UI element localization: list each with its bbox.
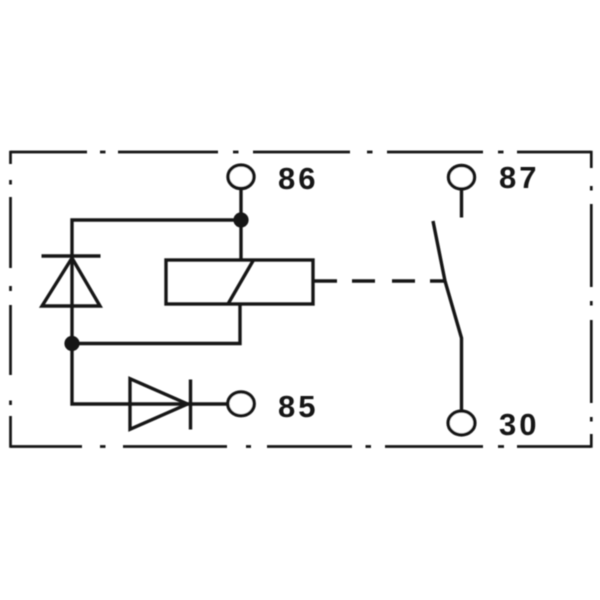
diode D1 (vertical, anode bottom, cathode bar top) [42,256,101,306]
switch armature S1 [433,221,462,410]
wire: coil to armature (dashed mechanical link) [313,279,445,282]
svg-text:86: 86 [278,161,318,196]
relay case outline, right side [590,151,593,448]
svg-text:87: 87 [499,160,539,195]
terminal circle 87 [449,166,475,189]
terminal circle 85 [228,392,254,416]
wire: 87 stub [460,189,463,218]
svg-text:85: 85 [278,389,318,424]
wire: junction to left branch down to lower junction [72,220,241,344]
wire: 86 to coil top [239,189,242,261]
terminal circle 30 [448,411,475,435]
node: junction dot on 86 wire [233,212,248,227]
relay case outline (dash-dot border), top side [11,151,592,154]
diode D2 (horizontal, pointing right) [130,379,191,430]
relay coil K1 [166,260,313,304]
relay case outline, left side [9,151,12,448]
relay case outline, bottom side [11,445,592,448]
wire: lower junction to coil bottom [72,304,240,344]
node: lower-left junction dot [64,336,79,351]
terminal circle 86 [228,165,254,188]
svg-text:30: 30 [499,407,539,442]
wire: lower junction down and right to diode D2 [72,344,227,405]
